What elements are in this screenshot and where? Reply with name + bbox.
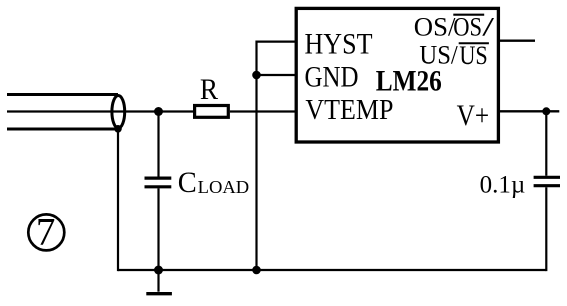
node junction on bottom rail below GND tie <box>252 266 261 275</box>
svg-text:US: US <box>459 41 487 70</box>
cable probe: bottom conductor line <box>7 128 118 131</box>
ground symbol bar <box>146 292 172 295</box>
wire HYST pin <box>257 40 297 42</box>
figure number circle 7 <box>28 214 64 250</box>
node junction CLOAD branch on rail <box>154 266 163 275</box>
wire OS/US output <box>498 40 535 42</box>
wire CLOAD bottom plate down to rail <box>157 188 159 270</box>
node junction HYST/GND tie <box>252 71 261 80</box>
svg-text:US/: US/ <box>419 41 458 70</box>
wire resistor to VTEMP pin <box>230 110 296 112</box>
capacitor 0.1u bottom plate <box>534 184 560 187</box>
svg-text:VTEMP: VTEMP <box>305 94 393 126</box>
cable probe: end ellipse <box>112 95 125 128</box>
overline over second OS <box>453 14 484 16</box>
svg-text:OS/: OS/ <box>414 12 456 41</box>
node junction V+ branch <box>542 107 550 115</box>
svg-text:HYST: HYST <box>305 29 373 61</box>
svg-text:LOAD: LOAD <box>198 177 250 197</box>
IC U1 LM26 body <box>296 8 498 142</box>
svg-text:LM26: LM26 <box>376 65 442 97</box>
wire 0.1u cap down to rail <box>545 187 547 271</box>
overline over second US <box>459 42 489 44</box>
svg-text:7: 7 <box>36 211 56 254</box>
wire junction down to CLOAD top plate <box>157 112 159 177</box>
capacitor CLOAD top plate <box>145 177 172 180</box>
capacitor 0.1u top plate <box>534 176 560 179</box>
ground symbol stub <box>157 270 159 292</box>
wire GND pin <box>257 74 297 76</box>
svg-text:C: C <box>178 167 197 199</box>
svg-text:V+: V+ <box>457 99 490 132</box>
svg-text:GND: GND <box>305 62 359 94</box>
wire bottom ground rail <box>118 269 546 271</box>
cable probe: middle conductor (signal) line <box>7 110 194 112</box>
wire V+ junction down to 0.1u cap <box>545 111 547 175</box>
wire V+ pin to right <box>498 110 559 112</box>
svg-text:/: / <box>482 12 495 41</box>
wire GND tie down to ground rail <box>255 75 257 270</box>
wire cable shield down to bottom rail <box>117 129 119 271</box>
resistor R body <box>195 106 229 118</box>
wire HYST to GND vertical tie <box>255 41 257 76</box>
svg-text:R: R <box>200 74 219 106</box>
svg-text:OS: OS <box>453 12 482 41</box>
node junction signal wire to CLOAD <box>154 107 163 116</box>
svg-text:0.1µ: 0.1µ <box>480 169 526 198</box>
cable probe: top conductor line <box>7 93 118 96</box>
capacitor CLOAD bottom plate <box>145 185 172 188</box>
node at cable shield bottom <box>114 125 122 133</box>
